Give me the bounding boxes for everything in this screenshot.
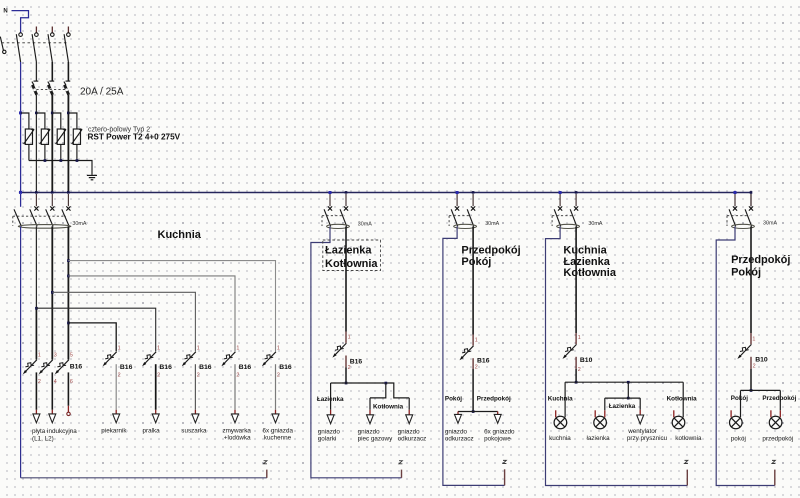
load arrow gniazdo piec gazowy: [367, 415, 374, 424]
varistor RV3: [56, 129, 66, 161]
junction L3 (varistor tap): [67, 112, 70, 115]
svg-text:B10: B10: [755, 357, 768, 364]
wire feeder to breaker 3: [36, 308, 155, 351]
svg-text:gniazdo: gniazdo: [398, 428, 421, 435]
RCD U3 2-pole 30mA: [449, 191, 476, 228]
wire feeder to breaker 6: [68, 261, 275, 352]
svg-text:łazienka: łazienka: [587, 435, 611, 442]
wire L (section 4) RCD to breaker: [575, 226, 577, 333]
svg-text:1: 1: [277, 345, 280, 351]
svg-text:Przedpokój: Przedpokój: [731, 254, 790, 266]
wire branch bar (section 4): [565, 381, 683, 383]
terminal z (section 1): [266, 470, 268, 478]
wire N to varistor 1: [21, 113, 29, 129]
svg-text:Pokój: Pokój: [461, 256, 491, 268]
load arrow suszarka: [192, 414, 199, 423]
terminal z (section 4): [686, 470, 688, 486]
wire L1 switch to fuse: [35, 62, 37, 81]
svg-text:odkurzacz: odkurzacz: [445, 436, 474, 443]
svg-text:20A / 25A: 20A / 25A: [80, 87, 124, 98]
breaker Q6 B16 (zmywarka+lodowka): [221, 352, 235, 367]
svg-text:B16: B16: [239, 364, 252, 371]
wire N return (section 1 left + bottom): [20, 226, 22, 477]
svg-text:B16: B16: [350, 358, 363, 365]
svg-text:2: 2: [475, 364, 478, 370]
wire L2 switch to fuse: [51, 62, 53, 81]
load arrow wentylator: [637, 415, 644, 424]
svg-text:3: 3: [54, 353, 57, 359]
svg-text:B16: B16: [120, 364, 133, 371]
svg-text:Łazienka: Łazienka: [325, 245, 372, 257]
svg-text:B16: B16: [159, 364, 172, 371]
main switch Q1 pole N: [19, 33, 23, 37]
terminal z (section 3): [504, 469, 506, 485]
fuse linkage (dashed): [36, 89, 66, 91]
breaker Q11 B10: [737, 344, 751, 359]
svg-text:Łazienka: Łazienka: [609, 403, 636, 410]
svg-text:Kuchnia: Kuchnia: [563, 244, 607, 256]
svg-text:1: 1: [236, 345, 239, 351]
wire N return (section 3): [443, 226, 505, 485]
svg-text:gniazdo: gniazdo: [358, 428, 381, 435]
wire to arrow wentylator: [639, 398, 641, 410]
wire N return (section 4): [546, 226, 688, 485]
label box Lazienka Kotlownia (dashed): [323, 240, 381, 271]
breaker Q5 B16 (suszarka): [182, 352, 196, 367]
load arrow 6x gniazda: [272, 414, 279, 423]
svg-text:Kotłownia: Kotłownia: [667, 396, 698, 403]
wire Q7 to arrow: [275, 364, 277, 410]
svg-text:płyta indukcyjna: płyta indukcyjna: [32, 428, 77, 435]
svg-text:golarki: golarki: [318, 436, 337, 443]
fuse F3 (L3): [64, 81, 70, 95]
wire to arrow odkurzacz: [408, 398, 410, 410]
junction bus L1: [35, 191, 38, 194]
wire L3 switch to fuse: [67, 62, 69, 81]
svg-text:2: 2: [348, 365, 351, 371]
svg-text:30mA: 30mA: [72, 221, 86, 227]
load arrow 6x gniazdo pokojowe: [494, 414, 501, 423]
wire stubs above main switch poles L1 L2 L3: [35, 27, 37, 33]
wire varistor common bus to earth: [29, 161, 92, 175]
wire Q11 to branch junction: [750, 357, 752, 369]
wire L (section 5) RCD to breaker: [750, 226, 752, 333]
main switch Q1 pole L3: [67, 33, 71, 37]
svg-text:1: 1: [38, 353, 41, 359]
lamp przedpokoj: [769, 416, 782, 429]
load arrow gniazdo golarki: [327, 415, 334, 424]
wire branch bar (section 5): [741, 389, 781, 391]
wire split drop: [627, 382, 629, 398]
svg-text:gniazdo: gniazdo: [445, 428, 468, 435]
svg-text:2: 2: [753, 363, 756, 369]
svg-text:RST Power T2 4+0 275V: RST Power T2 4+0 275V: [88, 133, 181, 142]
svg-text:piekarnik: piekarnik: [101, 428, 127, 435]
svg-text:Przedpokój: Przedpokój: [762, 395, 796, 402]
svg-text:(L1, L2): (L1, L2): [32, 435, 54, 442]
svg-text:30mA: 30mA: [358, 221, 372, 227]
breaker Q10 B10: [563, 344, 577, 359]
junction L3 feeder 3: [67, 322, 70, 325]
wire Q4 to arrow: [155, 364, 157, 410]
svg-text:2: 2: [236, 372, 239, 378]
svg-text:Przedpokój: Przedpokój: [461, 244, 520, 256]
wire Q8 to branch junction: [345, 356, 347, 368]
lamp kotlownia: [672, 416, 685, 429]
svg-text:kuchenne: kuchenne: [264, 435, 292, 442]
load arrow plyta L2: [49, 414, 56, 423]
svg-text:Kotłownia: Kotłownia: [563, 267, 616, 279]
junction varistor 4 bottom: [76, 159, 79, 162]
wire branch bar (section 2): [331, 383, 410, 398]
wire bus end drop (section 5 L): [750, 193, 752, 207]
junction L3 feeder 2: [67, 275, 70, 278]
junction lazienka/wentylator split: [627, 381, 630, 384]
wire L3 RCD to breaker: [67, 226, 69, 359]
svg-text:30mA: 30mA: [588, 221, 602, 227]
wire Q2 pole1 to arrow: [35, 372, 37, 409]
varistor RV1: [24, 129, 34, 161]
wire branch bar (section 3): [458, 411, 498, 413]
svg-text:kuchnia: kuchnia: [549, 435, 571, 442]
wire L1 RCD to breaker: [35, 226, 37, 308]
breaker Q2 3-pole B16 (plyta indukcyjna): [23, 360, 37, 375]
terminal z (section 5): [774, 470, 776, 486]
breaker Q9 B16: [460, 346, 474, 361]
load arrow gniazdo odkurzacz (s3): [455, 414, 462, 423]
svg-text:pralka: pralka: [143, 428, 161, 435]
svg-text:pokój: pokój: [731, 436, 746, 443]
junction branch (section 2): [345, 382, 348, 385]
svg-text:2: 2: [157, 372, 160, 378]
RCD U2 2-pole 30mA: [322, 191, 349, 228]
svg-text:30mA: 30mA: [485, 221, 499, 227]
wire N return (section 5): [716, 226, 775, 485]
wire feeder to breaker 4: [52, 292, 195, 351]
fuse F1 (L1): [32, 81, 38, 95]
load arrow plyta L1: [33, 414, 40, 423]
svg-text:B16: B16: [279, 364, 292, 371]
svg-text:1: 1: [752, 336, 755, 342]
svg-text:6x gniazdo: 6x gniazdo: [484, 428, 515, 435]
svg-text:B16: B16: [477, 358, 490, 365]
wire to arrow pokojowe: [497, 412, 499, 416]
svg-text:zmywarka: zmywarka: [223, 428, 252, 435]
lamp kuchnia: [554, 416, 567, 429]
fuse F2 (L2): [48, 81, 54, 95]
junction kotlownia split: [385, 382, 388, 385]
svg-text:1: 1: [348, 334, 351, 340]
svg-text:pokojowe: pokojowe: [484, 436, 511, 443]
main switch Q1 pole L1: [35, 33, 39, 37]
svg-text:1: 1: [475, 337, 478, 343]
junction bus L3: [67, 191, 70, 194]
svg-text:2: 2: [578, 367, 581, 373]
junction varistor 3 bottom: [60, 159, 63, 162]
wire Q2 pole3 to terminal: [67, 372, 69, 405]
svg-text:przedpokój: przedpokój: [762, 436, 793, 443]
breaker Q3 B16 (piekarnik): [103, 352, 117, 367]
wire Q2 pole2 to arrow: [51, 372, 53, 409]
RCD U1 4-pole 30mA: [13, 194, 71, 228]
svg-text:suszarka: suszarka: [181, 428, 207, 435]
main switch Q1 auxiliary pole (far left): [0, 37, 3, 51]
main switch Q1 pole L2: [51, 33, 55, 37]
wire Q6 to arrow: [234, 364, 236, 410]
svg-text:30mA: 30mA: [763, 220, 777, 226]
wire to arrow odkurzacz (s3): [457, 412, 459, 416]
svg-text:Przedpokój: Przedpokój: [477, 396, 511, 403]
svg-text:odkurzacz: odkurzacz: [398, 436, 427, 443]
lamp pokoj: [730, 416, 743, 429]
wire to lamp lazienka: [604, 398, 606, 410]
wire sub-branch bar: [605, 397, 640, 399]
wire N pole down (switch to bus): [20, 62, 22, 193]
varistor RV4: [72, 129, 82, 161]
wire L (section 3) RCD to breaker: [472, 226, 474, 334]
svg-text:N: N: [3, 9, 7, 15]
svg-text:Pokój: Pokój: [731, 395, 748, 402]
wire Q10 to branch junction: [575, 357, 577, 369]
RCD U4 2-pole 30mA: [552, 191, 579, 228]
main switch Q1 mechanical linkage (dashed): [2, 42, 68, 44]
svg-text:1: 1: [197, 345, 200, 351]
junction branch (section 3): [472, 410, 475, 413]
wire Q3 to arrow: [115, 364, 117, 410]
svg-text:+lodówka: +lodówka: [224, 435, 251, 442]
svg-text:piec gazowy: piec gazowy: [358, 436, 394, 443]
svg-text:1: 1: [578, 335, 581, 341]
junction L3 feeder 1: [67, 259, 70, 262]
breaker Q8 B16: [332, 343, 346, 358]
breaker Q7 B16 (6x gniazda kuchenne): [262, 352, 276, 367]
wire feeder to breaker 2: [68, 323, 116, 352]
wire L2 fuse to junction row: [51, 95, 53, 193]
wire main distribution bus: [19, 192, 751, 194]
svg-text:kotłownia: kotłownia: [675, 435, 702, 442]
junction L2 (varistor tap): [51, 112, 54, 115]
svg-text:1: 1: [118, 345, 121, 351]
load arrow piekarnik: [113, 414, 120, 423]
junction branch (section 4): [575, 381, 578, 384]
wire L3 fuse to junction row: [67, 95, 69, 193]
wire L (section 2) RCD to breaker: [345, 226, 347, 331]
svg-text:Łazienka: Łazienka: [563, 256, 610, 268]
svg-text:2: 2: [277, 372, 280, 378]
wire L1 fuse to junction row: [35, 95, 37, 193]
wire N feed (blue jog from N label to pole 1): [12, 11, 29, 33]
wire to lamp przedpokoj: [779, 390, 781, 410]
junction L1 (varistor tap): [35, 112, 38, 115]
lamp lazienka: [594, 416, 607, 429]
svg-text:2: 2: [118, 372, 121, 378]
svg-text:Kotłownia: Kotłownia: [325, 258, 378, 270]
wire kotlownia left drop: [370, 383, 386, 398]
wire Q5 to arrow: [194, 364, 196, 410]
load arrow gniazdo odkurzacz: [406, 415, 413, 424]
wire N return (section 2): [311, 226, 402, 477]
svg-text:Kotłownia: Kotłownia: [373, 403, 404, 410]
svg-text:2: 2: [197, 372, 200, 378]
svg-text:5: 5: [70, 353, 73, 359]
svg-text:1: 1: [157, 345, 160, 351]
wire L1 to varistor 2: [36, 113, 45, 129]
svg-text:Pokój: Pokój: [731, 266, 761, 278]
svg-text:B16: B16: [199, 364, 212, 371]
svg-text:Kuchnia: Kuchnia: [548, 396, 573, 403]
svg-text:B16: B16: [70, 364, 83, 371]
svg-text:gniazdo: gniazdo: [318, 428, 341, 435]
varistor RV2: [40, 129, 50, 161]
wire L2 to varistor 3: [52, 113, 61, 129]
svg-text:4: 4: [54, 379, 57, 385]
svg-text:2: 2: [38, 379, 41, 385]
wire L2 RCD to breaker: [51, 226, 53, 359]
terminal z (section 2): [401, 470, 403, 478]
RCD U5 2-pole 30mA: [727, 191, 754, 228]
wire to lamp kotlownia: [682, 382, 684, 417]
junction sub-branch (section 4): [627, 397, 630, 400]
svg-text:Pokój: Pokój: [445, 396, 462, 403]
wire Q9 to branch junction: [472, 358, 474, 369]
wire L3 to varistor 4: [68, 113, 77, 129]
load arrow pralka: [152, 414, 159, 423]
svg-text:Kuchnia: Kuchnia: [158, 229, 202, 241]
wire to lamp pokoj: [740, 390, 742, 417]
wire to arrow golarki: [330, 383, 332, 410]
breaker Q4 B16 (pralka): [142, 352, 156, 367]
svg-text:B10: B10: [580, 357, 593, 364]
junction L1 feeder: [35, 307, 38, 310]
svg-text:przy prysznicu: przy prysznicu: [627, 435, 668, 442]
junction bus L2: [51, 191, 54, 194]
junction L2 feeder: [51, 291, 54, 294]
svg-text:6x gniazda: 6x gniazda: [263, 428, 294, 435]
junction varistor 2 bottom: [44, 159, 47, 162]
wire to lamp kuchnia: [564, 382, 566, 417]
svg-text:6: 6: [70, 379, 73, 385]
load arrow zmywarka: [232, 414, 239, 423]
junction branch (section 5): [750, 389, 753, 392]
wire to arrow piec gazowy: [369, 398, 371, 410]
terminal circle (unused L3): [67, 412, 70, 415]
junction bus N: [19, 191, 22, 194]
wire feeder to breaker 5: [68, 276, 235, 352]
ground symbol: [87, 175, 97, 179]
junction N (varistor tap): [19, 111, 22, 114]
